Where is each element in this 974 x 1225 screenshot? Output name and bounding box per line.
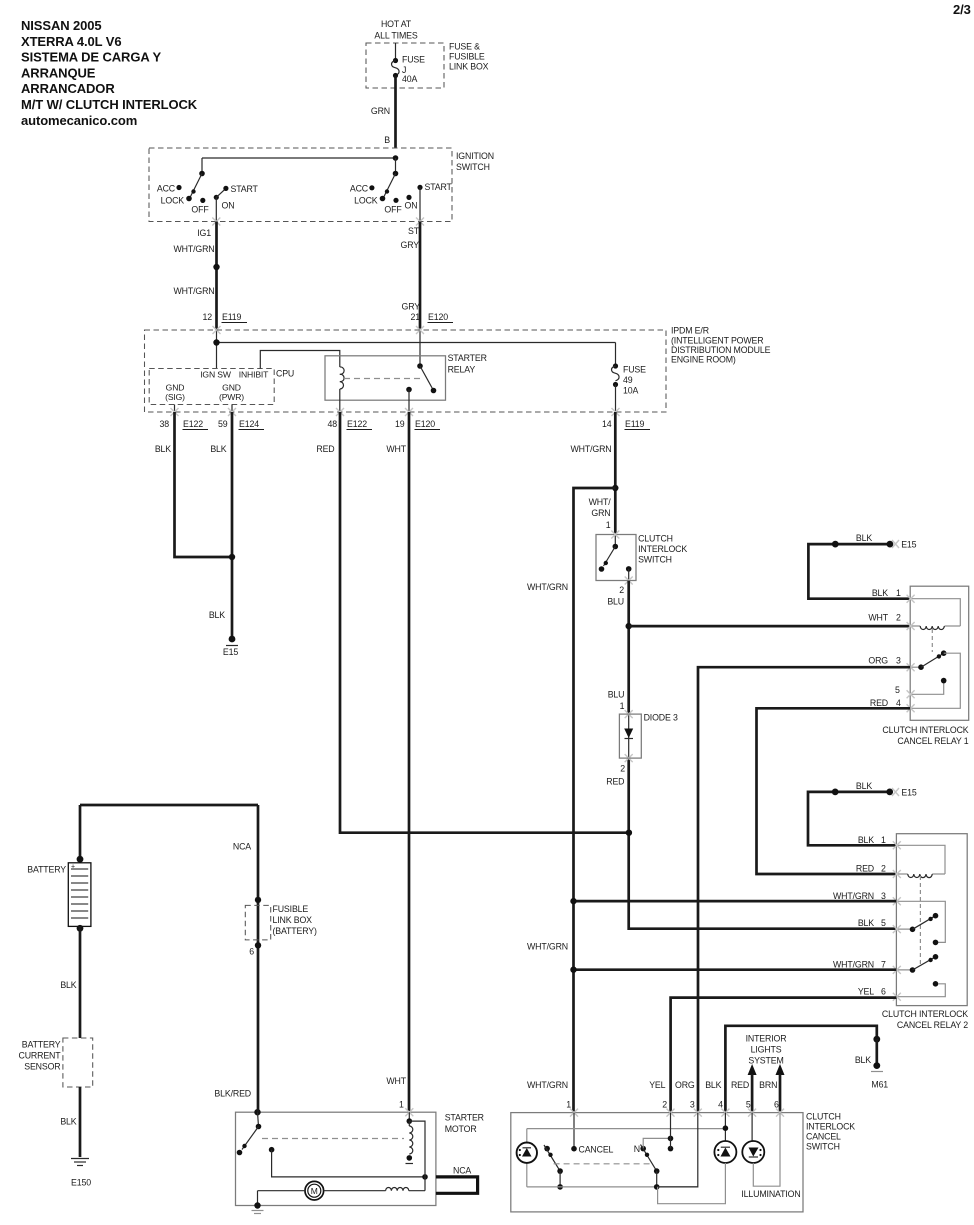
svg-text:BLK: BLK <box>60 1117 76 1127</box>
svg-text:FUSE: FUSE <box>623 365 646 375</box>
svg-text:BRN: BRN <box>759 1080 777 1090</box>
svg-text:CANCEL: CANCEL <box>579 1145 614 1155</box>
svg-text:ARRANQUE: ARRANQUE <box>21 66 96 81</box>
svg-text:CANCEL RELAY 1: CANCEL RELAY 1 <box>897 736 968 746</box>
svg-text:(INTELLIGENT POWER: (INTELLIGENT POWER <box>671 336 763 346</box>
svg-text:FUSIBLE: FUSIBLE <box>449 52 485 62</box>
svg-text:ORG: ORG <box>675 1080 695 1090</box>
svg-text:WHT/GRN: WHT/GRN <box>174 286 215 296</box>
svg-text:FUSE &: FUSE & <box>449 42 480 52</box>
svg-text:WHT/GRN: WHT/GRN <box>527 942 568 952</box>
svg-text:SWITCH: SWITCH <box>456 162 490 172</box>
svg-text:ACC: ACC <box>157 184 176 194</box>
svg-text:BLK: BLK <box>856 533 872 543</box>
svg-text:BLK: BLK <box>60 980 76 990</box>
svg-text:ON: ON <box>405 201 418 211</box>
svg-text:INTERLOCK: INTERLOCK <box>806 1122 855 1132</box>
svg-text:RELAY: RELAY <box>448 365 476 375</box>
svg-text:ENGINE ROOM): ENGINE ROOM) <box>671 355 736 365</box>
svg-text:LOCK: LOCK <box>354 196 378 206</box>
svg-text:BLK: BLK <box>155 444 171 454</box>
svg-text:E119: E119 <box>222 312 242 322</box>
svg-text:LOCK: LOCK <box>161 196 185 206</box>
svg-text:E122: E122 <box>347 419 367 429</box>
svg-text:M: M <box>311 1186 318 1196</box>
svg-text:WHT/GRN: WHT/GRN <box>571 444 612 454</box>
svg-text:WHT/GRN: WHT/GRN <box>527 582 568 592</box>
svg-text:12: 12 <box>203 312 213 322</box>
svg-text:M61: M61 <box>871 1080 888 1090</box>
svg-text:7: 7 <box>881 960 886 970</box>
svg-text:CLUTCH INTERLOCK: CLUTCH INTERLOCK <box>882 725 968 735</box>
svg-text:RED: RED <box>316 444 334 454</box>
svg-text:CLUTCH INTERLOCK: CLUTCH INTERLOCK <box>882 1009 968 1019</box>
svg-text:INHIBIT: INHIBIT <box>239 370 269 380</box>
svg-text:XTERRA 4.0L V6: XTERRA 4.0L V6 <box>21 34 121 49</box>
svg-text:E119: E119 <box>625 419 645 429</box>
svg-text:ALL TIMES: ALL TIMES <box>374 31 417 41</box>
svg-text:BLK: BLK <box>858 835 874 845</box>
svg-text:2/3: 2/3 <box>953 2 971 17</box>
svg-text:WHT/GRN: WHT/GRN <box>833 960 874 970</box>
svg-text:48: 48 <box>328 419 338 429</box>
svg-text:BLK/RED: BLK/RED <box>214 1089 251 1099</box>
svg-text:GND: GND <box>222 383 241 393</box>
svg-text:FUSIBLE: FUSIBLE <box>273 904 309 914</box>
svg-text:OFF: OFF <box>191 205 209 215</box>
svg-text:IPDM E/R: IPDM E/R <box>671 326 709 336</box>
svg-text:BLK: BLK <box>872 588 888 598</box>
svg-text:DISTRIBUTION MODULE: DISTRIBUTION MODULE <box>671 345 771 355</box>
svg-text:(SIG): (SIG) <box>165 392 185 402</box>
svg-text:3: 3 <box>896 656 901 666</box>
svg-text:+: + <box>71 864 75 871</box>
svg-text:IGNITION: IGNITION <box>456 151 494 161</box>
svg-text:IGN SW: IGN SW <box>200 370 232 380</box>
svg-text:4: 4 <box>718 1100 723 1110</box>
svg-text:N: N <box>634 1144 640 1154</box>
svg-text:INTERLOCK: INTERLOCK <box>638 544 687 554</box>
svg-text:CURRENT: CURRENT <box>19 1051 62 1061</box>
svg-text:ILLUMINATION: ILLUMINATION <box>741 1189 800 1199</box>
svg-text:6: 6 <box>881 987 886 997</box>
svg-text:RED: RED <box>856 864 874 874</box>
svg-text:4: 4 <box>896 698 901 708</box>
svg-text:NCA: NCA <box>233 842 251 852</box>
svg-text:BLK: BLK <box>705 1080 721 1090</box>
svg-text:B: B <box>384 135 390 145</box>
svg-text:SWITCH: SWITCH <box>806 1142 840 1152</box>
svg-text:2: 2 <box>619 585 624 595</box>
svg-text:ST: ST <box>408 226 420 236</box>
svg-text:E15: E15 <box>901 788 916 798</box>
svg-text:automecanico.com: automecanico.com <box>21 113 137 128</box>
svg-text:STARTER: STARTER <box>448 353 487 363</box>
svg-text:BLK: BLK <box>856 781 872 791</box>
svg-text:START: START <box>231 184 259 194</box>
svg-text:OFF: OFF <box>384 205 402 215</box>
svg-text:ARRANCADOR: ARRANCADOR <box>21 81 115 96</box>
svg-text:CPU: CPU <box>276 369 294 379</box>
svg-text:ON: ON <box>222 201 235 211</box>
svg-text:WHT/GRN: WHT/GRN <box>527 1080 568 1090</box>
svg-text:BLK: BLK <box>210 444 226 454</box>
svg-text:BATTERY: BATTERY <box>27 865 66 875</box>
svg-text:IG1: IG1 <box>197 228 211 238</box>
svg-text:1: 1 <box>881 835 886 845</box>
svg-text:BLK: BLK <box>855 1055 871 1065</box>
svg-text:RED: RED <box>731 1080 749 1090</box>
svg-text:E120: E120 <box>428 312 448 322</box>
svg-text:GRN: GRN <box>371 106 390 116</box>
svg-text:ORG: ORG <box>868 656 888 666</box>
svg-text:3: 3 <box>881 891 886 901</box>
svg-text:WHT/GRN: WHT/GRN <box>833 891 874 901</box>
svg-text:CANCEL: CANCEL <box>806 1132 841 1142</box>
svg-text:START: START <box>425 182 453 192</box>
svg-text:RED: RED <box>606 777 624 787</box>
svg-text:6: 6 <box>774 1100 779 1110</box>
svg-text:STARTER: STARTER <box>445 1113 484 1123</box>
svg-text:2: 2 <box>896 613 901 623</box>
svg-text:1: 1 <box>896 588 901 598</box>
svg-text:BATTERY: BATTERY <box>22 1040 61 1050</box>
svg-text:WHT: WHT <box>386 444 406 454</box>
svg-text:2: 2 <box>662 1100 667 1110</box>
svg-text:GRY: GRY <box>401 240 420 250</box>
svg-text:BLK: BLK <box>209 610 225 620</box>
svg-text:CLUTCH: CLUTCH <box>806 1112 841 1122</box>
svg-text:HOT AT: HOT AT <box>381 19 412 29</box>
svg-text:LINK BOX: LINK BOX <box>273 915 313 925</box>
svg-text:FUSE: FUSE <box>402 55 425 65</box>
svg-text:NCA: NCA <box>453 1166 471 1176</box>
svg-text:49: 49 <box>623 375 633 385</box>
svg-text:E150: E150 <box>71 1178 91 1188</box>
svg-text:2: 2 <box>620 764 625 774</box>
svg-text:WHT/GRN: WHT/GRN <box>174 244 215 254</box>
svg-text:1: 1 <box>566 1100 571 1110</box>
svg-text:38: 38 <box>160 419 170 429</box>
svg-text:10A: 10A <box>623 386 638 396</box>
svg-text:RED: RED <box>870 698 888 708</box>
svg-text:1: 1 <box>620 701 625 711</box>
svg-text:YEL: YEL <box>649 1080 665 1090</box>
svg-text:3: 3 <box>690 1100 695 1110</box>
svg-text:(BATTERY): (BATTERY) <box>273 926 317 936</box>
svg-text:WHT: WHT <box>386 1076 406 1086</box>
svg-text:M/T W/ CLUTCH INTERLOCK: M/T W/ CLUTCH INTERLOCK <box>21 97 198 112</box>
svg-text:5: 5 <box>895 685 900 695</box>
svg-text:2: 2 <box>881 864 886 874</box>
svg-text:YEL: YEL <box>858 987 874 997</box>
svg-text:E120: E120 <box>415 419 435 429</box>
svg-text:DIODE 3: DIODE 3 <box>644 713 678 723</box>
svg-text:CANCEL RELAY 2: CANCEL RELAY 2 <box>897 1020 968 1030</box>
svg-text:ACC: ACC <box>350 184 369 194</box>
svg-text:GRY: GRY <box>402 302 421 312</box>
svg-text:59: 59 <box>218 419 228 429</box>
svg-text:SWITCH: SWITCH <box>638 555 672 565</box>
svg-text:BLU: BLU <box>607 597 624 607</box>
svg-text:SYSTEM: SYSTEM <box>748 1056 783 1066</box>
svg-text:BLU: BLU <box>608 690 625 700</box>
svg-text:5: 5 <box>881 918 886 928</box>
svg-text:E15: E15 <box>223 647 238 657</box>
svg-text:LINK BOX: LINK BOX <box>449 62 489 72</box>
svg-text:40A: 40A <box>402 74 417 84</box>
svg-text:21: 21 <box>411 312 421 322</box>
svg-text:E124: E124 <box>239 419 259 429</box>
svg-text:19: 19 <box>395 419 405 429</box>
svg-text:MOTOR: MOTOR <box>445 1124 477 1134</box>
svg-text:6: 6 <box>249 947 254 957</box>
svg-text:5: 5 <box>746 1100 751 1110</box>
svg-text:BLK: BLK <box>858 918 874 928</box>
svg-text:E15: E15 <box>901 540 916 550</box>
svg-text:NISSAN 2005: NISSAN 2005 <box>21 18 102 33</box>
svg-text:WHT: WHT <box>868 613 888 623</box>
svg-text:1: 1 <box>399 1100 404 1110</box>
svg-text:WHT/: WHT/ <box>589 497 612 507</box>
svg-text:LIGHTS: LIGHTS <box>751 1045 782 1055</box>
svg-text:E122: E122 <box>183 419 203 429</box>
svg-text:GND: GND <box>166 383 185 393</box>
svg-text:CLUTCH: CLUTCH <box>638 534 673 544</box>
svg-text:GRN: GRN <box>591 508 610 518</box>
svg-text:14: 14 <box>602 419 612 429</box>
svg-text:(PWR): (PWR) <box>219 392 244 402</box>
svg-text:1: 1 <box>606 520 611 530</box>
svg-text:SISTEMA DE CARGA Y: SISTEMA DE CARGA Y <box>21 50 161 65</box>
svg-text:INTERIOR: INTERIOR <box>746 1034 787 1044</box>
svg-text:SENSOR: SENSOR <box>24 1062 60 1072</box>
